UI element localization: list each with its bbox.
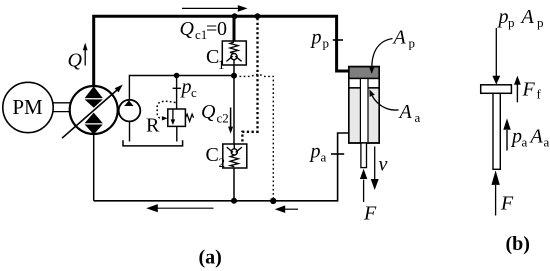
variable displacement arrow through pump: [62, 90, 117, 138]
svg-text:p: p: [323, 36, 330, 51]
node: bottom rail / pilot line: [270, 198, 276, 204]
svg-text:a: a: [544, 135, 550, 150]
flow arrow above top rail: [182, 7, 239, 9]
check valve C2: [223, 144, 247, 168]
svg-text:f: f: [537, 87, 542, 102]
svg-text:F: F: [500, 193, 514, 215]
wire: relief valve R inlet: [176, 76, 178, 110]
node: C1 outlet / pilot tap junction: [231, 73, 237, 79]
svg-text:p: p: [310, 27, 322, 49]
svg-text:A: A: [398, 101, 413, 123]
shaft coupling PM-pump (double line): [53, 102, 71, 104]
svg-text:Q: Q: [68, 50, 83, 72]
svg-text:c: c: [191, 85, 197, 100]
relief valve pilot line (dashed): [157, 101, 175, 118]
node: bottom rail / C2 outlet: [231, 198, 237, 204]
(b) friction force arrow F_f (up): [516, 85, 518, 103]
wire: C2 outlet to bottom rail: [233, 168, 235, 201]
tank (reservoir) symbol: [123, 140, 183, 146]
wire: pump outlet riser and top rail to cylinder cap port (thick): [94, 16, 349, 87]
velocity arrow v: [374, 147, 376, 180]
charge pump: [119, 100, 141, 122]
check valve C1: [222, 41, 246, 65]
svg-text:0: 0: [217, 18, 227, 40]
wire: bottom rail and p_a riser to cylinder rod-side port: [94, 133, 349, 201]
piston rod inside barrel: [360, 79, 368, 144]
svg-text:A: A: [520, 6, 535, 28]
cylinder outer border: [349, 67, 379, 143]
(b) force arrow p_p A_p (down): [495, 28, 497, 77]
svg-text:Q: Q: [201, 101, 216, 123]
svg-text:p: p: [508, 15, 515, 30]
svg-text:p: p: [180, 76, 192, 98]
svg-text:F: F: [522, 79, 536, 101]
relief valve spring: [185, 114, 193, 121]
wire: C1 inlet stub from top rail (thick): [233, 16, 236, 41]
flow arrow Q (pump outlet): [84, 50, 86, 66]
svg-text:a: a: [415, 110, 421, 125]
p_p gauge tick and label: [333, 39, 343, 41]
svg-text:C: C: [206, 144, 219, 166]
(b) rod: [493, 93, 500, 169]
svg-text:c2: c2: [217, 111, 229, 126]
svg-text:PM: PM: [12, 95, 43, 119]
pilot line (thin dotted) from C1 outlet node to bottom rail: [240, 75, 274, 200]
svg-text:a: a: [522, 135, 528, 150]
(b) load force arrow F (up): [495, 185, 497, 216]
svg-text:Q: Q: [180, 18, 195, 40]
svg-text:p: p: [497, 6, 509, 28]
svg-text:A: A: [392, 27, 407, 49]
(b) force arrow p_a A_a (up): [506, 130, 508, 151]
node p_c junction: [174, 73, 180, 79]
svg-text:a: a: [321, 150, 327, 165]
wire: relief valve R drain to tank: [176, 126, 178, 141]
svg-text:2: 2: [219, 155, 226, 170]
svg-text:p: p: [409, 36, 416, 51]
p_c gauge tick: [173, 87, 181, 89]
svg-text:p: p: [510, 126, 522, 148]
piston rod extending below cylinder: [361, 143, 367, 168]
wire: C1 to C2 connector through node: [233, 65, 235, 144]
prime mover PM: [3, 82, 53, 132]
(b) piston flange: [481, 85, 512, 94]
wire: charge pump suction to tank: [129, 121, 131, 141]
relief valve R: [146, 101, 194, 136]
svg-text:p: p: [537, 15, 544, 30]
svg-text:A: A: [529, 126, 544, 148]
wire: pump suction line down to bottom rail: [93, 134, 95, 201]
node: top rail / pilot tap: [255, 13, 261, 19]
flow arrow under bottom rail (long, left): [155, 207, 214, 209]
svg-text:R: R: [146, 115, 160, 137]
flow arrow under bottom rail (short, near pilot node): [284, 208, 299, 210]
svg-text:(b): (b): [506, 233, 530, 255]
load force arrow F: [363, 180, 365, 203]
svg-text:v: v: [379, 154, 388, 176]
cylinder barrel rod-side chamber: [349, 88, 379, 143]
p_a gauge tick and label: [331, 153, 344, 155]
cylinder piston lower white band: [349, 79, 379, 88]
svg-text:=: =: [206, 18, 217, 40]
svg-text:F: F: [363, 203, 377, 225]
wire: charge pump outlet to p_c node and C1 outlet node: [129, 76, 234, 101]
svg-text:(a): (a): [199, 247, 222, 269]
variable displacement pump: [62, 85, 123, 139]
svg-text:1: 1: [218, 57, 225, 72]
pilot line (thick dotted) from top rail to C2: [242, 18, 257, 143]
svg-text:p: p: [309, 141, 321, 163]
node: top rail / C1 stub: [232, 13, 238, 19]
cylinder piston (cap side, gray): [349, 67, 379, 79]
